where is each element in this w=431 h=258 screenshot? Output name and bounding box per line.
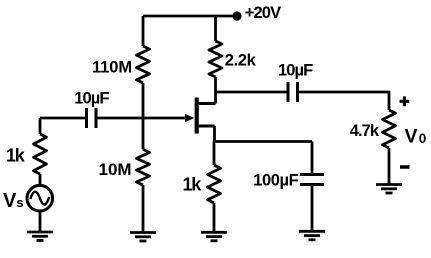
wire: 1k bottom to ground <box>213 203 216 232</box>
ground: load ground <box>376 185 402 194</box>
wire: source lead down to source node <box>213 126 216 142</box>
svg-text:4.7k: 4.7k <box>350 122 380 140</box>
svg-text:1k: 1k <box>6 146 26 166</box>
wire: input from Vs top corner to input cap <box>40 117 87 120</box>
wire: source node to 1k and to 100uF <box>213 142 216 166</box>
wire: 10M bottom to ground <box>142 185 145 233</box>
transistor Q1 source stub <box>197 125 215 128</box>
wire: source node horizontal to 100uF <box>214 140 312 143</box>
wire: input 1k to source circle <box>39 174 42 185</box>
svg-text:10µF: 10µF <box>74 90 109 108</box>
source Vs sine wave <box>30 192 49 205</box>
ground: bias divider ground <box>130 233 156 242</box>
wire: 100uF bottom to ground <box>311 185 314 232</box>
svg-text:100µF: 100µF <box>253 171 298 189</box>
resistor 110M <box>137 46 150 83</box>
resistor 1k source <box>208 165 221 203</box>
svg-text:1k: 1k <box>183 174 203 194</box>
svg-text:10M: 10M <box>99 160 132 179</box>
label: plus sign output <box>400 96 410 106</box>
resistor 2.2k <box>209 41 222 77</box>
capacitor 100uF <box>300 175 324 185</box>
wire: output node to output cap <box>216 91 289 94</box>
gate arrowhead <box>185 114 194 123</box>
wire: output cap to load corner <box>298 92 390 110</box>
svg-text:V0: V0 <box>405 126 427 148</box>
svg-text:10µF: 10µF <box>278 62 313 80</box>
svg-text:Vs: Vs <box>3 190 24 212</box>
label: minus sign output <box>400 165 410 169</box>
transistor Q1 (JFET) gate bar <box>195 98 199 134</box>
node: +20V supply dot <box>232 11 241 20</box>
wire: drain lead up to output node <box>214 92 217 104</box>
ground: Vs ground <box>27 232 53 241</box>
wire: rail to 110M top <box>142 16 145 46</box>
source Vs circle <box>27 185 53 211</box>
svg-text:+20V: +20V <box>245 4 281 22</box>
resistor 10M <box>137 150 150 186</box>
svg-text:2.2k: 2.2k <box>225 52 257 70</box>
wire: input cap to gate with arrow <box>96 117 187 120</box>
ground: bypass cap ground <box>299 231 325 240</box>
wire: 4.7k bottom to ground <box>388 148 391 185</box>
wire: 2.2k bottom to drain node <box>214 77 217 92</box>
ground: source resistor ground <box>201 232 227 241</box>
transistor Q1 drain stub <box>197 102 216 105</box>
wire: 100uF top lead <box>311 142 314 175</box>
wire: top supply rail <box>143 15 237 18</box>
capacitor 10uF output <box>288 82 298 102</box>
wire: rail to 2.2k top <box>214 16 217 41</box>
resistor 4.7k <box>383 110 396 148</box>
wire: Vs corner to input 1k <box>39 118 42 134</box>
wire: Vs bottom to ground <box>39 211 42 232</box>
resistor 1k input <box>34 134 47 174</box>
capacitor 10uF input <box>87 108 97 128</box>
svg-text:110M: 110M <box>92 58 132 76</box>
wire: 110M bottom to gate junction to 10M top <box>142 83 145 150</box>
